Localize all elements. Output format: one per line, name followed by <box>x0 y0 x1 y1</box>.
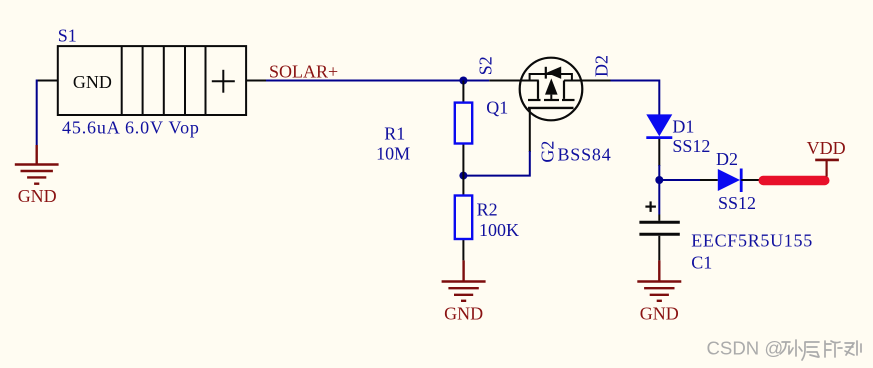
svg-text:G2: G2 <box>538 141 558 163</box>
value 45.6uA 6.0V Vop <box>62 118 200 138</box>
svg-text:R1: R1 <box>384 124 405 144</box>
pin label S2 <box>476 56 496 75</box>
resistor R1 <box>455 81 472 176</box>
svg-text:SOLAR+: SOLAR+ <box>269 62 338 82</box>
svg-text:C1: C1 <box>691 253 712 273</box>
value SS12 (D2) <box>718 193 756 213</box>
designator C1 <box>691 253 712 273</box>
svg-text:D2: D2 <box>592 55 612 77</box>
wire junction to D2 <box>659 179 700 181</box>
wire junction to C1 <box>658 180 660 215</box>
pin S2 of Q1 <box>489 80 539 82</box>
pin anode of D2 <box>700 179 718 181</box>
designator R1 <box>384 124 405 144</box>
svg-text:S1: S1 <box>58 25 77 45</box>
junction node (R1/R2/gate) <box>459 172 467 180</box>
wire D1 to junction <box>658 165 660 180</box>
svg-text:GND: GND <box>640 304 679 324</box>
ground (below C1) <box>637 260 681 300</box>
pin label D2 <box>592 55 612 77</box>
svg-text:S2: S2 <box>476 56 496 75</box>
ground net label GND (left) <box>18 186 57 206</box>
svg-text:SS12: SS12 <box>672 136 710 156</box>
pin GND of S1 <box>37 80 58 82</box>
svg-text:D2: D2 <box>716 149 738 169</box>
wire to ground <box>36 80 38 146</box>
VDD thick power wire <box>759 176 830 186</box>
value EECF5R5U155 <box>691 231 813 251</box>
value 10M <box>376 143 410 163</box>
value BSS84 <box>558 144 612 164</box>
power port VDD <box>815 160 839 177</box>
value 100K <box>479 220 519 240</box>
battery S1 <box>58 46 246 115</box>
watermark chinese characters <box>780 340 861 360</box>
junction node (SOLAR+ / R1) <box>459 77 467 85</box>
pin label G2 <box>538 141 558 163</box>
wire drain to D1 <box>611 81 660 116</box>
value SS12 (D1) <box>672 136 710 156</box>
pin D2 of Q1 <box>564 80 611 82</box>
wire SOLAR+ net <box>266 80 489 82</box>
designator Q1 <box>486 98 508 118</box>
svg-text:BSS84: BSS84 <box>558 144 612 164</box>
ground net label GND (below R2) <box>444 304 483 324</box>
svg-text:GND: GND <box>73 72 112 92</box>
watermark CSDN <box>707 338 784 359</box>
svg-text:EECF5R5U155: EECF5R5U155 <box>691 231 813 251</box>
designator S1 <box>58 25 77 45</box>
wire gate to R1/R2 junction <box>463 151 529 176</box>
designator D1 <box>672 116 694 136</box>
transistor Q1 BSS84 <box>520 58 583 121</box>
svg-text:D1: D1 <box>672 116 694 136</box>
svg-text:GND: GND <box>444 304 483 324</box>
C1 polarity plus sign <box>645 201 656 212</box>
pin G2 of Q1 <box>529 108 531 152</box>
svg-text:SS12: SS12 <box>718 193 756 213</box>
svg-text:45.6uA 6.0V Vop: 45.6uA 6.0V Vop <box>62 118 200 138</box>
diode D2 <box>718 169 760 193</box>
resistor R2 <box>455 176 472 261</box>
ground net label GND (below C1) <box>640 304 679 324</box>
capacitor C1 <box>639 215 679 261</box>
svg-text:10M: 10M <box>376 143 410 163</box>
svg-text:CSDN @: CSDN @ <box>707 338 784 359</box>
junction node (D1/D2/C1) <box>655 176 663 184</box>
ground (below R2) <box>442 260 486 300</box>
designator D2 <box>716 149 738 169</box>
S1 GND pin name <box>73 72 112 92</box>
svg-text:GND: GND <box>18 186 57 206</box>
designator R2 <box>477 199 498 219</box>
svg-text:Q1: Q1 <box>486 98 508 118</box>
pin + of S1 <box>246 80 267 82</box>
svg-text:100K: 100K <box>479 220 519 240</box>
power net label VDD <box>807 138 846 158</box>
ground (left) <box>15 145 59 184</box>
diode D1 <box>646 114 672 166</box>
net label SOLAR+ <box>269 62 338 82</box>
svg-text:R2: R2 <box>477 199 498 219</box>
svg-text:VDD: VDD <box>807 138 846 158</box>
